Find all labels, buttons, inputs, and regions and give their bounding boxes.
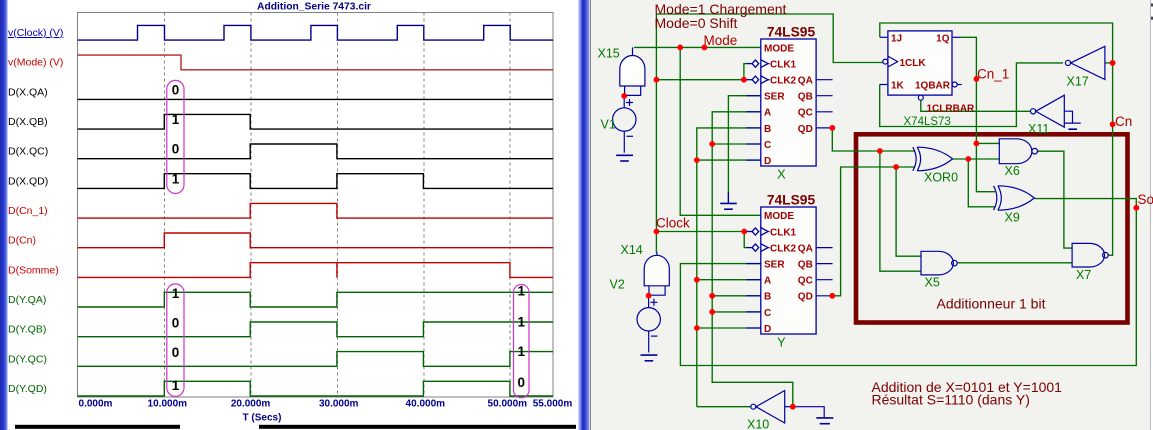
svg-text:Mode=0 Shift: Mode=0 Shift — [655, 15, 738, 31]
svg-text:X74LS73: X74LS73 — [904, 116, 951, 128]
svg-text:55.000m: 55.000m — [533, 399, 573, 410]
svg-text:MODE: MODE — [764, 211, 794, 222]
pulse source V2 — [637, 296, 660, 353]
svg-text:QA: QA — [798, 244, 813, 255]
svg-text:Mode: Mode — [704, 33, 738, 48]
X register pin stubs — [746, 80, 833, 160]
wire logic-1 net (X.B X.D Y.A Y.D) — [697, 128, 761, 407]
svg-text:30.000m: 30.000m — [319, 399, 359, 410]
74LS73 JK flip-flop X74LS73 — [880, 31, 975, 128]
NAND gate X6 — [999, 139, 1037, 164]
ground below V1 — [616, 155, 633, 161]
inverter X10 — [751, 391, 793, 424]
wire X register clock — [656, 64, 747, 80]
wire Y.QD to XOR0 lower input — [832, 167, 914, 296]
wire D(X.QA) trace — [78, 98, 554, 100]
svg-text:D(Y.QC): D(Y.QC) — [8, 353, 47, 365]
junction Clock at X register clock — [654, 77, 660, 83]
wire D(X.QB) trace — [78, 114, 554, 129]
svg-text:1K: 1K — [891, 81, 905, 92]
svg-text:0: 0 — [172, 345, 180, 360]
svg-text:QD: QD — [798, 292, 813, 303]
svg-text:0: 0 — [172, 82, 180, 97]
wire D(Cn) trace — [78, 233, 554, 248]
wire D(X.QD) trace — [78, 174, 554, 189]
Y register clock pin diamonds — [747, 228, 770, 252]
node So anchor — [1133, 205, 1139, 211]
svg-text:1: 1 — [518, 283, 526, 298]
svg-text:X5: X5 — [925, 276, 940, 290]
inverter X11 — [1031, 95, 1065, 127]
junction XOR0 lower input to X5 — [893, 164, 899, 170]
junction Y CLK1/CLK2 — [741, 229, 747, 235]
1J 1K 1Q stubs — [880, 37, 962, 84]
svg-text:v(Clock) (V): v(Clock) (V) — [8, 27, 63, 39]
svg-text:QB: QB — [798, 92, 813, 103]
wire D(X.QC) trace — [78, 144, 554, 159]
svg-text:D(X.QD): D(X.QD) — [8, 175, 48, 187]
wire X10 output to logic-1 net — [697, 406, 751, 408]
svg-text:A: A — [764, 276, 771, 287]
wire X17 input stub — [1105, 62, 1113, 64]
node value capsule Y group at 10ms — [167, 284, 184, 397]
svg-text:74LS95: 74LS95 — [767, 25, 816, 40]
1QBAR output bubble — [952, 82, 957, 87]
svg-text:QC: QC — [798, 108, 813, 119]
wire v(Mode) trace — [78, 55, 554, 70]
svg-text:1: 1 — [518, 315, 526, 330]
dark red annotation texts — [655, 1, 1063, 407]
junction X.C logic-0 — [709, 141, 715, 147]
svg-text:C: C — [764, 140, 771, 151]
junction XOR0 upper input to X5 — [877, 148, 883, 154]
wire D(Y.QA) trace — [78, 292, 554, 307]
svg-text:Résultat S=1110 (dans Y): Résultat S=1110 (dans Y) — [872, 392, 1030, 408]
Additionneur 1 bit box — [856, 134, 1128, 322]
svg-text:D(Cn_1): D(Cn_1) — [8, 205, 48, 217]
svg-text:B: B — [764, 292, 771, 303]
X register clock pin diamonds — [747, 60, 770, 84]
wire XOR0 output branch to X9 lower input — [968, 159, 995, 207]
junction Y.A logic-1 — [694, 277, 700, 283]
svg-text:CLK1: CLK1 — [770, 60, 797, 71]
svg-text:C: C — [764, 308, 771, 319]
wire Cn_1 net: 1Q to X6 and X9 upper inputs — [960, 37, 999, 191]
svg-text:Cn_1: Cn_1 — [977, 67, 1009, 82]
svg-text:QA: QA — [798, 76, 813, 87]
wire Y register clock — [656, 232, 747, 248]
svg-text:50.000m: 50.000m — [488, 399, 528, 410]
svg-text:1: 1 — [172, 286, 180, 301]
junction Cn_1 to X6 — [974, 141, 980, 147]
junction X10 input ground — [790, 404, 796, 410]
svg-text:Clock: Clock — [656, 216, 690, 231]
wire D(Y.QD) trace — [78, 381, 554, 396]
svg-text:D(X.QB): D(X.QB) — [8, 116, 48, 128]
wire Clock top jog to 74LS73 1CLK — [656, 14, 882, 63]
svg-text:X10: X10 — [747, 418, 769, 430]
wire Mode net: X15 output to X.MODE — [634, 46, 761, 48]
svg-text:QD: QD — [798, 124, 813, 135]
wire XOR0 lower branch to X5 upper input — [896, 167, 921, 256]
wire So net: X9 output, Y.SER return — [680, 199, 1136, 366]
XOR gate X9 — [994, 186, 1035, 210]
svg-text:1J: 1J — [891, 33, 902, 44]
svg-text:T (Secs): T (Secs) — [243, 413, 282, 424]
junction Cn to X17 input — [1110, 60, 1116, 66]
svg-text:D(Y.QB): D(Y.QB) — [8, 324, 46, 336]
junction Y.C logic-0 — [709, 309, 715, 315]
74LS95 X register — [746, 25, 833, 182]
svg-text:v(Mode) (V): v(Mode) (V) — [8, 57, 63, 69]
svg-text:1Q: 1Q — [936, 33, 950, 44]
wire D(Cn_1) trace — [78, 203, 554, 218]
NAND gate X5 — [921, 251, 957, 275]
svg-text:0: 0 — [518, 375, 526, 390]
junction Y.QD output — [829, 293, 835, 299]
capsule digits — [172, 82, 526, 393]
74LS95 Y register — [746, 192, 833, 349]
wire D(Y.QC) trace — [78, 352, 554, 367]
node Cn_1 anchor — [974, 76, 980, 82]
svg-text:X14: X14 — [621, 243, 643, 257]
wire X17 output to 1K — [880, 63, 1063, 127]
svg-text:1: 1 — [172, 171, 180, 186]
svg-text:X11: X11 — [1028, 122, 1049, 136]
inverter X17 — [1065, 46, 1105, 79]
svg-text:SER: SER — [764, 92, 785, 103]
node value capsule Y group at 50ms — [514, 285, 530, 398]
svg-text:Y: Y — [777, 334, 786, 349]
1CLK edge triangle and bubble — [888, 56, 898, 67]
wire D(Somme) trace with glitch — [78, 263, 554, 278]
node value capsule X group at 10ms — [167, 80, 184, 193]
svg-text:XOR0: XOR0 — [924, 171, 958, 185]
svg-text:D(Somme): D(Somme) — [8, 264, 59, 276]
wire 1CLRBAR to X11 output — [921, 100, 1031, 111]
junction Mode branch to Y.MODE — [677, 45, 683, 51]
svg-text:0: 0 — [172, 142, 180, 157]
junction V2 to X14 — [646, 293, 652, 299]
ground for X.SER — [720, 192, 737, 209]
dashed time gridlines — [165, 13, 511, 397]
node Clock anchor — [654, 229, 660, 235]
svg-text:CLK1: CLK1 — [770, 227, 797, 238]
wire Mode branch down to Y.MODE — [680, 47, 761, 215]
wire X5 output to X7 lower input — [957, 262, 1072, 264]
svg-text:So: So — [1138, 192, 1153, 207]
signal name labels — [8, 27, 63, 395]
wire v(Clock) trace — [78, 25, 554, 40]
svg-text:A: A — [764, 108, 771, 119]
junction X.D logic-1 — [694, 157, 700, 163]
node Cn anchor — [1110, 121, 1116, 127]
svg-text:1CLK: 1CLK — [900, 58, 927, 69]
wire XOR0 upper branch to X5 lower input — [880, 151, 921, 271]
waveform traces — [78, 25, 554, 396]
ground below V2 — [641, 355, 658, 361]
svg-text:1: 1 — [172, 112, 180, 127]
svg-text:CLK2: CLK2 — [770, 76, 797, 87]
svg-text:D(X.QA): D(X.QA) — [8, 86, 48, 98]
junction Y.D logic-1 — [694, 325, 700, 331]
x axis tick labels — [79, 399, 573, 424]
svg-text:X15: X15 — [598, 47, 620, 61]
XOR gate XOR0 — [913, 147, 953, 171]
svg-text:X9: X9 — [1005, 211, 1020, 225]
svg-text:20.000m: 20.000m — [231, 399, 271, 410]
wire X6 output to X7 upper input — [1038, 151, 1073, 248]
junction V1 to X15 — [621, 93, 627, 99]
junction X CLK1/CLK2 — [741, 77, 747, 83]
svg-text:V2: V2 — [610, 278, 625, 292]
svg-text:V1: V1 — [601, 118, 616, 132]
svg-text:74LS95: 74LS95 — [767, 192, 816, 207]
wire Clock vertical main — [655, 14, 657, 253]
svg-text:X6: X6 — [1005, 164, 1020, 178]
svg-text:0.000m: 0.000m — [79, 399, 113, 410]
svg-text:B: B — [764, 124, 771, 135]
svg-text:X17: X17 — [1067, 75, 1089, 89]
ground at X10 input — [793, 407, 834, 424]
svg-text:D(Y.QD): D(Y.QD) — [8, 383, 47, 395]
Y register pin stubs — [746, 248, 833, 328]
junction X.QD output — [829, 125, 835, 131]
wire D(Y.QB) trace — [78, 322, 554, 337]
node Mode anchor — [702, 45, 708, 51]
svg-text:X: X — [777, 167, 786, 182]
svg-text:D(X.QC): D(X.QC) — [8, 146, 48, 158]
svg-text:X7: X7 — [1076, 268, 1091, 282]
svg-text:10.000m: 10.000m — [148, 399, 188, 410]
svg-text:QC: QC — [798, 276, 813, 287]
AtoD converter X15 — [620, 47, 645, 95]
svg-text:D: D — [764, 324, 771, 335]
svg-text:Additionneur 1 bit: Additionneur 1 bit — [937, 296, 1046, 312]
wire X.SER to ground — [728, 96, 760, 203]
svg-text:1QBAR: 1QBAR — [915, 81, 951, 92]
bottom black bars — [15, 425, 180, 429]
svg-text:1CLRBAR: 1CLRBAR — [927, 104, 976, 115]
svg-text:CLK2: CLK2 — [770, 244, 797, 255]
svg-text:SER: SER — [764, 260, 785, 271]
1CLRBAR pin bubble — [918, 95, 923, 100]
svg-text:0: 0 — [172, 316, 180, 331]
plot frame — [78, 13, 554, 398]
svg-text:1: 1 — [518, 344, 526, 359]
svg-text:Addition_Serie 7473.cir: Addition_Serie 7473.cir — [257, 2, 371, 13]
svg-text:D: D — [764, 156, 771, 167]
svg-text:Cn: Cn — [1115, 114, 1132, 129]
X11 input bracket and ground — [1064, 111, 1080, 129]
svg-text:D(Y.QA): D(Y.QA) — [8, 294, 46, 306]
wire X.QD to XOR0 upper input — [832, 128, 914, 151]
svg-text:1: 1 — [172, 378, 180, 393]
wire Cn net: X7 output up to top and to 1J — [880, 23, 1113, 255]
pulse source V1 — [613, 96, 636, 153]
svg-text:40.000m: 40.000m — [406, 399, 446, 410]
junction Y.B logic-0 — [709, 293, 715, 299]
junction XOR0 output — [965, 156, 971, 162]
window left blue border — [0, 0, 8, 430]
svg-text:D(Cn): D(Cn) — [8, 235, 36, 247]
AtoD converter X14 — [644, 252, 669, 295]
wire XOR0 output to X6 lower input — [953, 158, 1000, 160]
wire logic-0 net (X.A X.C Y.B Y.C to X10 input) — [712, 112, 793, 407]
svg-text:QB: QB — [798, 260, 813, 271]
NAND gate X7 — [1072, 243, 1108, 267]
svg-text:MODE: MODE — [764, 43, 794, 54]
